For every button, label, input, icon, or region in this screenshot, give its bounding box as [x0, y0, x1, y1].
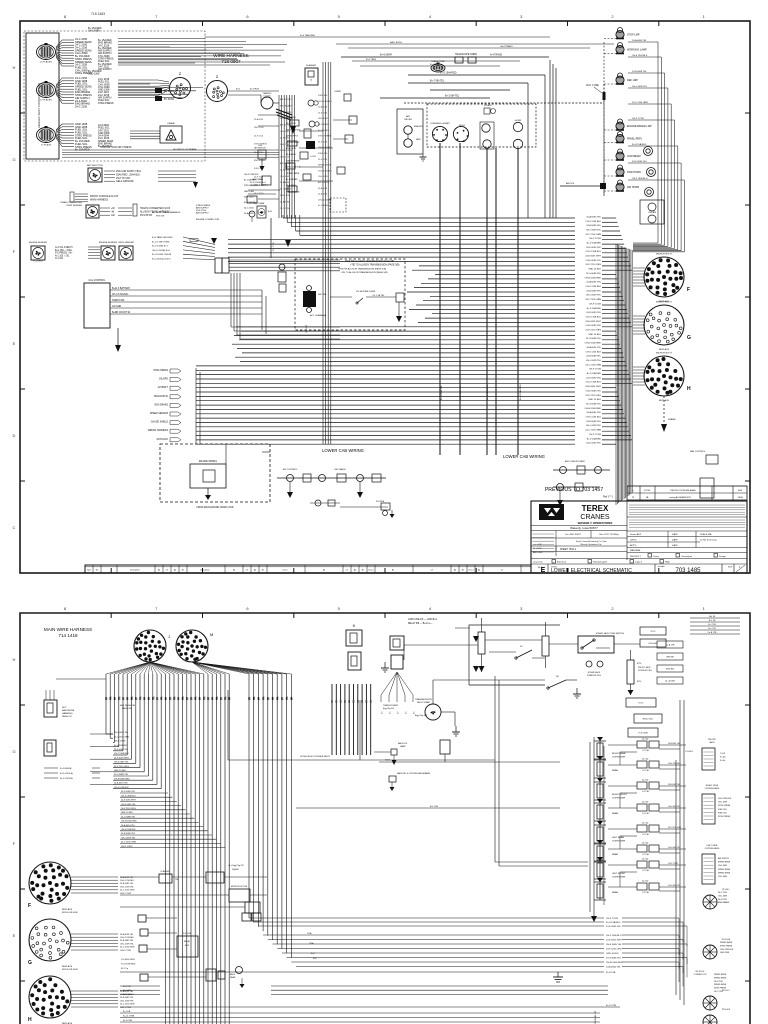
svg-text:24-A 6094 YEL: 24-A 6094 YEL: [586, 215, 601, 218]
svg-text:number: number: [658, 566, 665, 568]
svg-text:ALLISON TRANS HARNESS: ALLISON TRANS HARNESS: [152, 211, 181, 214]
svg-text:catalog AS DRAWN 8/97: catalog AS DRAWN 8/97: [669, 496, 692, 499]
svg-text:24-F 2210: 24-F 2210: [286, 185, 296, 187]
svg-text:BACKBONE: BACKBONE: [62, 709, 75, 712]
left backbone connectors: [44, 690, 75, 756]
svg-text:G: G: [687, 335, 691, 341]
approvals grid: [627, 531, 747, 553]
svg-text:M: M: [210, 632, 213, 637]
svg-text:24-7 Sp: 24-7 Sp: [642, 802, 648, 804]
svg-text:G: G: [12, 749, 15, 754]
svg-text:B+-5 15A4 RED: B+-5 15A4 RED: [440, 72, 457, 75]
title block main frame: [531, 501, 747, 573]
svg-text:Ch: Ch: [166, 570, 168, 572]
dashed harness boundary box (air/elec shift console): [24, 31, 205, 161]
trans oil temp sender connector: [60, 201, 99, 218]
svg-text:B+-9 15A RED: B+-9 15A RED: [587, 307, 602, 310]
svg-text:GND 1308: GND 1308: [720, 952, 729, 954]
svg-text:B+-11 17BB: B+-11 17BB: [123, 1016, 135, 1018]
svg-text:SPEED SENS: SPEED SENS: [714, 974, 727, 976]
svg-text:LOWER CAB WIRING: LOWER CAB WIRING: [503, 454, 545, 459]
svg-text:LEFT SIDE: LEFT SIDE: [706, 845, 718, 847]
svg-text:B+ TRLR: B+ TRLR: [250, 89, 259, 91]
svg-text:CRANE: CRANE: [167, 122, 175, 125]
svg-text:Egg Pkg 5/4: Egg Pkg 5/4: [383, 708, 395, 710]
svg-text:Crane Div: Crane Div: [533, 561, 544, 564]
lower ladder rows into trunk: [120, 791, 225, 848]
svg-text:24-E 6091 WHT: 24-E 6091 WHT: [114, 757, 130, 759]
svg-text:C+12 BC: C+12 BC: [642, 750, 650, 752]
svg-text:DATE: DATE: [672, 544, 678, 547]
svg-text:B+ 15A RED: B+ 15A RED: [318, 204, 330, 207]
svg-text:B+-9 15A RED: B+-9 15A RED: [587, 242, 602, 245]
svg-text:K: K: [353, 623, 356, 628]
svg-text:CH-6 1234 BLK: CH-6 1234 BLK: [586, 351, 602, 353]
right top ref stubs: [690, 616, 740, 634]
svg-text:CH-L 6099 TEL: CH-L 6099 TEL: [120, 886, 135, 888]
svg-text:Descr: Descr: [469, 569, 474, 572]
svg-text:GND 1308: GND 1308: [280, 157, 290, 159]
svg-text:V DC: V DC: [639, 703, 644, 705]
svg-text:FRONT JACK: FRONT JACK: [638, 666, 651, 669]
svg-text:24-C 2156: 24-C 2156: [718, 892, 727, 894]
svg-text:AIR CONDITIONER: AIR CONDITIONER: [565, 460, 585, 463]
svg-text:703 1485: 703 1485: [675, 568, 701, 574]
svg-text:LEFT FRONT: LEFT FRONT: [612, 873, 626, 875]
svg-text:Carrier/port: Carrier/port: [681, 555, 692, 558]
svg-text:B+ 15A RED: B+ 15A RED: [286, 178, 298, 181]
fuse block connector fan: [381, 672, 416, 714]
svg-text:24-F 2210: 24-F 2210: [714, 981, 723, 983]
svg-text:CH-L 6099: CH-L 6099: [718, 865, 727, 867]
svg-text:24-A 6094: 24-A 6094: [280, 200, 290, 203]
bottom revision strip cells: [85, 565, 531, 573]
selector switch lever: [515, 646, 545, 659]
svg-text:24-E 6091 WHT: 24-E 6091 WHT: [585, 386, 601, 388]
svg-text:ENGINE BRAKE LMP: ENGINE BRAKE LMP: [627, 125, 652, 128]
svg-text:+TIE TO ALLISON TRANSMISSION (: +TIE TO ALLISON TRANSMISSION (PAGE 5/B): [350, 264, 400, 267]
svg-text:RELAY 8/8 — B+4 Lo—: RELAY 8/8 — B+4 Lo—: [408, 622, 433, 625]
svg-text:FRONT: FRONT: [708, 739, 716, 741]
svg-text:GN GND: GN GND: [112, 306, 122, 308]
lamp feed wire labels: [628, 39, 684, 180]
svg-text:LOW BEAM: LOW BEAM: [627, 155, 640, 158]
svg-text:24-A 6094 YEL: 24-A 6094 YEL: [606, 965, 621, 968]
svg-text:24-7 Sp: 24-7 Sp: [642, 759, 648, 761]
svg-text:24-F 2210: 24-F 2210: [244, 196, 254, 198]
terex logo: [539, 504, 564, 520]
svg-text:24-F 2210: 24-F 2210: [718, 899, 727, 901]
svg-text:24-F 2210 ORG: 24-F 2210 ORG: [606, 948, 622, 950]
svg-text:AIR THROTTLE: AIR THROTTLE: [87, 164, 103, 167]
svg-text:MICROPLEX 57: MICROPLEX 57: [656, 353, 673, 355]
svg-text:17D: 17D: [226, 696, 228, 700]
svg-text:24-A 6094: 24-A 6094: [318, 193, 328, 196]
transmission neut start: [415, 698, 455, 720]
svg-text:CH-P 17332: CH-P 17332: [121, 846, 133, 848]
svg-text:CH-6 1234 BLK: CH-6 1234 BLK: [586, 221, 602, 223]
svg-text:Terex Cranes/Koehring Co. Sub: Terex Cranes/Koehring Co. Sub: [576, 540, 608, 543]
svg-text:WORKING LAMP: WORKING LAMP: [627, 49, 647, 52]
svg-text:CH-6 1234 BLK: CH-6 1234 BLK: [121, 829, 136, 831]
svg-text:ENGINE CONNECTOR: ENGINE CONNECTOR: [196, 219, 219, 221]
svg-text:718 1483: 718 1483: [91, 12, 105, 16]
lamp chain dashed supply: [604, 39, 616, 197]
RS engine ground cluster: [303, 286, 316, 334]
svg-text:Cu-B 1TB: Cu-B 1TB: [666, 645, 675, 647]
svg-text:CH-M 1306 RED: CH-M 1306 RED: [585, 408, 602, 410]
svg-text:T: T: [310, 79, 312, 83]
svg-text:24-B 6089 YEL: 24-B 6089 YEL: [120, 997, 134, 999]
svg-text:CH-6 1234 BLK: CH-6 1234 BLK: [318, 170, 333, 172]
junction riser bundle: [231, 273, 340, 339]
svg-text:OUTRIGGER: OUTRIGGER: [612, 757, 626, 759]
svg-text:GND 1308: GND 1308: [254, 127, 264, 129]
svg-text:24-G 6088 YEL: 24-G 6088 YEL: [586, 338, 602, 340]
svg-text:AIR SUPPLY: AIR SUPPLY: [280, 162, 292, 165]
svg-text:2L = 1/32: 2L = 1/32: [533, 548, 542, 550]
svg-text:B+L 15A: B+L 15A: [430, 805, 438, 808]
svg-text:AIR SUPPLY: AIR SUPPLY: [718, 857, 730, 860]
svg-text:CH-P 17332: CH-P 17332: [589, 369, 602, 371]
svg-text:BY PASS: BY PASS: [164, 98, 174, 101]
svg-text:STARTER PKG: STARTER PKG: [587, 674, 601, 677]
svg-text:H: H: [13, 657, 16, 662]
ground symbols top right: [381, 662, 581, 736]
terex cranes wordmark: [531, 504, 627, 531]
svg-text:Descr: Descr: [283, 569, 288, 572]
svg-text:GHD BK: GHD BK: [666, 657, 674, 659]
svg-text:MICROPLEX 57: MICROPLEX 57: [656, 254, 673, 256]
sheet 2 border frame: [12, 606, 750, 1024]
svg-text:J: J: [168, 634, 170, 639]
cluster interconnect wires sheet 2: [120, 865, 267, 977]
svg-text:24-C 2156 GRN: 24-C 2156 GRN: [585, 299, 601, 301]
svg-text:GND 16 BLK: GND 16 BLK: [588, 399, 601, 401]
svg-text:PG MODINE DGWL: PG MODINE DGWL: [356, 291, 376, 293]
svg-text:24-C 2156 GRN: 24-C 2156 GRN: [585, 364, 601, 366]
svg-text:CH-P 17332: CH-P 17332: [114, 741, 126, 743]
svg-text:DIAGNOSTIC: DIAGNOSTIC: [154, 395, 169, 398]
svg-text:GND 16 BLK: GND 16 BLK: [588, 334, 601, 336]
second fan verticals to corner bends: [249, 674, 291, 958]
svg-text:24-A 6094: 24-A 6094: [318, 106, 328, 109]
svg-text:C+12 BC: C+12 BC: [642, 813, 650, 815]
svg-text:714 1418: 714 1418: [58, 633, 78, 638]
svg-text:DRYER: DRYER: [404, 119, 412, 121]
svg-text:H: H: [687, 386, 691, 392]
title block date cells: [531, 531, 627, 552]
svg-text:24-B 6089 YEL: 24-B 6089 YEL: [586, 225, 602, 227]
lower cross bundle labels: [120, 986, 620, 1022]
title block left legal text: [533, 531, 557, 557]
svg-text:GD: GD: [111, 214, 115, 217]
MAIN WIRE HARNESS 714 1418 title: [44, 627, 92, 638]
svg-text:REPLACE: REPLACE: [659, 348, 670, 351]
svg-text:WIRING HARNESS: WIRING HARNESS: [148, 429, 169, 432]
svg-text:P-0 4094 GRN: P-0 4094 GRN: [121, 959, 135, 961]
svg-text:G: G: [12, 157, 15, 162]
svg-text:By: By: [323, 570, 325, 572]
svg-text:LOW AIR: LOW AIR: [648, 211, 657, 214]
svg-text:24-B 6089 YEL: 24-B 6089 YEL: [668, 784, 680, 786]
svg-text:CONNECTOR: CONNECTOR: [694, 974, 707, 976]
svg-text:OUTRIGGERS: OUTRIGGERS: [705, 848, 720, 850]
svg-text:STEERING+START: STEERING+START: [430, 122, 450, 125]
svg-text:BK FUSE 4/8 RELAY 8/0: BK FUSE 4/8 RELAY 8/0: [594, 1010, 597, 1024]
svg-text:24-D 6090 YEL: 24-D 6090 YEL: [114, 749, 129, 751]
right side outriggers plug: [702, 785, 732, 824]
svg-text:B+-4 10094 /1007A: B+-4 10094 /1007A: [152, 253, 171, 256]
svg-text:CH-L 6099: CH-L 6099: [718, 802, 727, 804]
wires P1 labels to cluster: [118, 39, 287, 66]
svg-text:ACC. FUSE: ACC. FUSE: [586, 84, 599, 87]
svg-text:B+RR COUNT 94: B+RR COUNT 94: [112, 312, 131, 314]
svg-text:24-C 2156 GRN: 24-C 2156 GRN: [120, 947, 135, 949]
svg-text:B+-9 15A: B+-9 15A: [606, 971, 616, 974]
svg-text:C+12 BC: C+12 BC: [642, 870, 650, 872]
svg-text:Ap: Ap: [454, 569, 456, 572]
svg-text:B+-T 1B: B+-T 1B: [708, 624, 716, 626]
svg-text:RIGHT SIDE: RIGHT SIDE: [706, 785, 719, 787]
svg-text:E: E: [13, 341, 16, 346]
svg-text:24-D 6090 YEL: 24-D 6090 YEL: [586, 377, 602, 379]
left side outriggers plug: [702, 845, 731, 884]
fan verticals and ladder staircase: [90, 674, 229, 1024]
svg-text:STRG PRESS: STRG PRESS: [244, 185, 258, 187]
left backbone wire stubs: [44, 768, 100, 780]
svg-text:B+1 1B.1 ./ 100+: B+1 1B.1 ./ 100+: [55, 250, 73, 252]
svg-text:CH-K 6085 YEL: CH-K 6085 YEL: [585, 325, 601, 327]
svg-text:B+11 F BATTERY: B+11 F BATTERY: [112, 287, 131, 290]
svg-text:24-A 6094: 24-A 6094: [244, 212, 254, 215]
svg-text:CH-L 6099 TEL: CH-L 6099 TEL: [120, 943, 135, 945]
outrigger module 1 relay boxes: [608, 739, 686, 773]
svg-text:24-C 2156 GRN: 24-C 2156 GRN: [120, 1004, 135, 1006]
svg-text:OUTRIGGERS: OUTRIGGERS: [705, 788, 720, 790]
svg-text:No: No: [362, 570, 364, 572]
svg-text:Ch: Ch: [346, 570, 348, 572]
svg-text:GND 1308: GND 1308: [280, 144, 290, 146]
svg-text:TELESCOPE SNDR: TELESCOPE SNDR: [455, 53, 477, 56]
svg-text:AIR SOL: AIR SOL: [566, 182, 575, 185]
svg-text:24-B 6089 YEL: 24-B 6089 YEL: [120, 940, 134, 942]
svg-text:CH-K 6085 YEL: CH-K 6085 YEL: [121, 804, 137, 806]
svg-text:FUEL SOL: FUEL SOL: [718, 812, 727, 814]
clock / hourmeter gauge: [261, 92, 273, 109]
right label boxes column: [626, 627, 666, 737]
svg-text:24-B 6089 YEL: 24-B 6089 YEL: [586, 421, 602, 423]
revision table (top of title block): [627, 486, 747, 500]
svg-text:B+-2 954 TEL: B+-2 954 TEL: [445, 96, 460, 98]
svg-text:24-F 2210: 24-F 2210: [318, 112, 328, 114]
riser from CAL wires down to bundle: [262, 290, 266, 334]
svg-text:24-B 6089 YEL: 24-B 6089 YEL: [586, 290, 602, 292]
svg-text:24-F 2210 ORG: 24-F 2210 ORG: [585, 264, 601, 266]
svg-text:STRG PRESS: STRG PRESS: [718, 816, 731, 818]
svg-text:Descr: Descr: [369, 569, 374, 572]
nested return verticals to connectors: [633, 42, 684, 252]
svg-text:24-D 6090 YEL: 24-D 6090 YEL: [606, 926, 622, 928]
relay cluster vertical harness bundle: [279, 62, 331, 444]
svg-text:24-C 2156 GRN: 24-C 2156 GRN: [120, 890, 135, 892]
svg-text:24-C 2156 GRN: 24-C 2156 GRN: [585, 430, 601, 432]
svg-text:STRG PRESS: STRG PRESS: [718, 805, 731, 807]
svg-text:CH-L 6099: CH-L 6099: [718, 876, 727, 878]
svg-text:B+ 15A RED: B+ 15A RED: [75, 148, 90, 152]
svg-text:24-2 (25030) B+4: 24-2 (25030) B+4: [250, 182, 267, 184]
svg-text:CH-2 1308 BLU: CH-2 1308 BLU: [586, 317, 602, 319]
svg-text:MIC 040: MIC 040: [318, 294, 327, 296]
svg-text:CRANES: CRANES: [580, 514, 610, 521]
lower selector lever: [547, 676, 566, 689]
svg-text:APP'D: APP'D: [630, 544, 637, 547]
svg-text:SPEED SENS: SPEED SENS: [280, 150, 293, 152]
svg-text:TRANSMISSION: TRANSMISSION: [415, 698, 432, 701]
svg-text:G-4 OIL 4 MECH: G-4 OIL 4 MECH: [55, 247, 73, 249]
svg-text:CH-L 6099 TEL: CH-L 6099 TEL: [586, 229, 602, 231]
interconnect wires top right: [228, 640, 640, 760]
svg-text:AIR SWITCH: AIR SWITCH: [254, 147, 266, 150]
svg-text:MICROPLEX 57: MICROPLEX 57: [656, 302, 673, 304]
svg-text:TRANS POWER: TRANS POWER: [383, 704, 398, 707]
svg-text:CH-A 5 SIGNAL: CH-A 5 SIGNAL: [112, 293, 129, 296]
svg-text:CH-P 17332: CH-P 17332: [632, 118, 645, 120]
svg-text:24-A 6094: 24-A 6094: [254, 118, 264, 121]
svg-text:CH-6 1234 BLK: CH-6 1234 BLK: [718, 798, 732, 800]
svg-text:By: By: [392, 570, 394, 572]
svg-text:SPEEDO: SPEEDO: [484, 105, 492, 107]
svg-text:24-C 2156: 24-C 2156: [244, 208, 255, 210]
svg-text:ENGINE SENDER: ENGINE SENDER: [29, 242, 48, 244]
svg-text:GND 1308: GND 1308: [88, 73, 100, 76]
svg-text:CH-K 6085 YEL: CH-K 6085 YEL: [585, 390, 601, 392]
svg-text:17D: 17D: [264, 696, 266, 700]
svg-text:GND 16 BLK: GND 16 BLK: [606, 953, 619, 955]
svg-text:B+ 15A RED: B+ 15A RED: [280, 188, 292, 191]
svg-text:B+4 TANK GROUND: B+4 TANK GROUND: [152, 236, 173, 239]
svg-text:17 PLACES: 17 PLACES: [40, 99, 52, 102]
svg-text:NOT: NOT: [62, 707, 67, 709]
svg-text:REPLACE: REPLACE: [62, 965, 73, 968]
marker lamp chain: [616, 28, 652, 192]
svg-text:P-3 ROW: P-3 ROW: [183, 933, 191, 935]
CAL CONTROL wire labels: [110, 287, 262, 352]
svg-text:CH-6 1234 BLK: CH-6 1234 BLK: [286, 167, 301, 169]
outrigger solenoid module 3 (LEFT REAR OUTRIGGER): [594, 821, 626, 862]
svg-text:24-C 2156 GRN: 24-C 2156 GRN: [121, 842, 136, 844]
svg-text:GND 16 BLK: GND 16 BLK: [114, 770, 127, 772]
svg-text:21 PLACES: 21 PLACES: [40, 61, 52, 64]
frame ground drop below connector H: [661, 396, 676, 432]
K relay block connector: [346, 623, 362, 670]
svg-text:17D: 17D: [141, 696, 143, 700]
svg-text:24-D 6090 YEL: 24-D 6090 YEL: [586, 443, 602, 445]
svg-text:CH-P 17332: CH-P 17332: [120, 950, 132, 952]
backup lamp branch: [374, 742, 560, 791]
svg-text:+TIE TO ALLISON TRANSMISSION (: +TIE TO ALLISON TRANSMISSION (PAGE 5/B): [340, 271, 387, 274]
svg-text:B+1 1B: B+1 1B: [709, 620, 716, 622]
lower cab chain components (right): [553, 450, 718, 506]
ignition/gauge dashed panel: [427, 104, 536, 147]
svg-text:STRG PRESS: STRG PRESS: [714, 988, 727, 990]
svg-text:DEF LMP: DEF LMP: [627, 79, 638, 82]
svg-text:PGS 85 5/8: PGS 85 5/8: [140, 215, 153, 217]
svg-text:CLOCK: CLOCK: [263, 96, 271, 98]
svg-text:AIR: AIR: [406, 115, 410, 118]
svg-text:SOF: SOF: [728, 567, 733, 569]
svg-text:P-5 PRESS ./ B+: P-5 PRESS ./ B+: [55, 253, 73, 255]
mid trunk bundle (x 332-372): [332, 684, 371, 755]
svg-text:SEE PAGE 5/B: SEE PAGE 5/B: [120, 704, 135, 707]
svg-text:Ref [ ** ]: Ref [ ** ]: [603, 495, 613, 499]
svg-text:17D: 17D: [183, 696, 185, 700]
svg-text:SPEED SENS: SPEED SENS: [318, 165, 331, 167]
svg-text:24-G 6088 YEL: 24-G 6088 YEL: [606, 957, 622, 959]
svg-text:CAL CONTROL: CAL CONTROL: [89, 279, 107, 282]
svg-text:PLUG R: PLUG R: [686, 751, 694, 753]
svg-text:G-1 GD: G-1 GD: [55, 258, 63, 260]
connector P3 (12 PLACE) oval multipin: [37, 126, 56, 147]
svg-text:CH-L 6099: CH-L 6099: [280, 176, 290, 178]
bulkhead connector Z (left): [170, 71, 191, 99]
svg-text:BACK: BACK: [230, 973, 236, 976]
svg-text:24-C 2156 GRN: 24-C 2156 GRN: [632, 102, 648, 104]
svg-text:OUTRIGGER: OUTRIGGER: [612, 798, 626, 800]
svg-text:24-B 6089 YEL: 24-B 6089 YEL: [586, 356, 602, 358]
svg-text:24-7 Sp: 24-7 Sp: [642, 780, 648, 782]
svg-text:24-F 2210: 24-F 2210: [254, 135, 264, 137]
svg-text:C+12 BC: C+12 BC: [642, 834, 650, 836]
CAL CONTROL module: [84, 279, 110, 328]
svg-text:PLUG C: PLUG C: [722, 990, 731, 992]
svg-text:N-1 100 ./ OIL: N-1 100 ./ OIL: [55, 255, 70, 257]
svg-text:STRG PRESS: STRG PRESS: [98, 102, 114, 105]
svg-text:P&C/pckage/h: P&C/pckage/h: [593, 562, 608, 564]
engine sender labels fan: [55, 247, 100, 260]
svg-text:24-A 6094 YEL: 24-A 6094 YEL: [586, 346, 601, 349]
svg-text:Ch: Ch: [501, 570, 503, 572]
outrigger solenoid module 2 (RIGHT FRONT OUTRIGGER): [594, 778, 628, 821]
air throttle connector: [87, 164, 103, 182]
svg-text:H: H: [28, 1017, 32, 1023]
lamp auxiliary relays: [640, 147, 664, 225]
left A-zone wires from ovals to cluster: [62, 146, 279, 157]
svg-text:AIR SUPPLY: AIR SUPPLY: [196, 211, 209, 214]
svg-text:24-B 6089 YEL: 24-B 6089 YEL: [632, 71, 648, 73]
product checkbox row: [531, 554, 747, 565]
svg-text:S+-Bn: S+-Bn: [720, 760, 725, 762]
svg-text:WIRE HARNESS: WIRE HARNESS: [213, 53, 248, 58]
svg-text:P+6 ROW RED: P+6 ROW RED: [121, 964, 136, 966]
WIRE HARNESS 718 0907 title: [213, 53, 248, 64]
svg-text:MATERIAL: MATERIAL: [630, 549, 642, 552]
connector M (sheet 2): [176, 630, 213, 662]
svg-text:ENG BRAKE: ENG BRAKE: [718, 901, 730, 904]
mid cross single wire: [120, 971, 616, 974]
sheet 1 border frame: [12, 14, 750, 573]
svg-text:T+4/8: T+4/8: [720, 753, 725, 755]
svg-text:C+12 BC: C+12 BC: [642, 892, 650, 894]
svg-text:SPEED SENS: SPEED SENS: [720, 942, 733, 944]
ether start aid switch box: [578, 632, 625, 653]
svg-text:BACK-UP: BACK-UP: [398, 742, 408, 745]
svg-text:SPEED SENS: SPEED SENS: [718, 862, 731, 864]
bulkhead connector F (sheet 1): [644, 254, 690, 304]
svg-text:PANEL REPL: PANEL REPL: [627, 138, 643, 141]
svg-text:B+-9 15A RED: B+-9 15A RED: [606, 921, 621, 924]
svg-text:MCDS-24L/05N: MCDS-24L/05N: [62, 912, 78, 914]
